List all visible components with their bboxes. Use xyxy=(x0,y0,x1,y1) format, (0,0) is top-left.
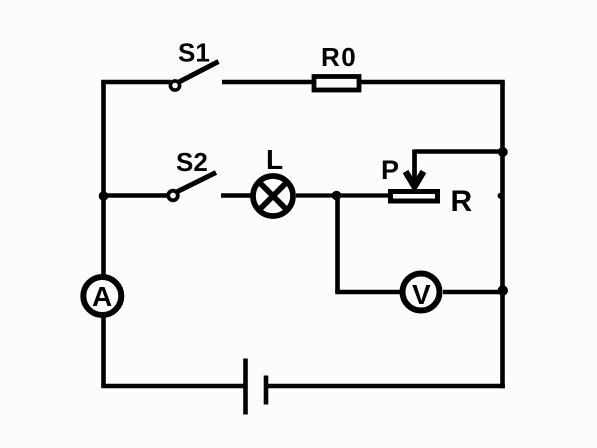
wire lamp to R xyxy=(296,193,390,197)
svg-text:R0: R0 xyxy=(321,42,357,72)
wire bottom left segment to battery xyxy=(101,384,245,389)
wire R0 to top right corner xyxy=(360,80,505,85)
wire left vertical (top corner to ammeter) xyxy=(101,82,106,277)
junction dot left wire / S2 branch xyxy=(99,191,109,201)
potentiometer wiper arrowhead xyxy=(406,172,424,187)
wire wiper to right wire xyxy=(415,149,503,154)
wire battery to bottom right corner xyxy=(266,384,505,389)
wire left vertical (ammeter to bottom corner) xyxy=(101,315,106,386)
svg-text:S1: S1 xyxy=(178,38,210,68)
stray dot on right wire xyxy=(498,193,504,199)
potentiometer R body xyxy=(391,192,438,202)
potentiometer wiper stem xyxy=(412,150,417,181)
wire left to S2 xyxy=(104,193,169,198)
wire junction down to voltmeter level xyxy=(335,196,340,293)
resistor R0 body xyxy=(314,77,359,91)
junction dot wiper to right wire xyxy=(498,147,508,157)
switch S2 lever xyxy=(176,173,217,193)
svg-text:A: A xyxy=(92,281,112,312)
lamp L circle xyxy=(253,176,293,216)
svg-text:R: R xyxy=(451,185,473,218)
lamp L cross line 2 xyxy=(259,182,287,210)
voltmeter V circle xyxy=(403,274,440,311)
switch S1 contact circle xyxy=(170,81,179,90)
battery short plate xyxy=(264,376,269,405)
ammeter A circle xyxy=(83,277,121,315)
wire S1 to R0 xyxy=(222,80,314,85)
lamp L cross line 1 xyxy=(259,182,287,210)
wire top left segment to S1 xyxy=(101,80,171,85)
svg-text:S2: S2 xyxy=(176,147,208,177)
junction dot voltmeter tap xyxy=(332,191,342,201)
svg-text:L: L xyxy=(266,144,283,175)
wire to voltmeter xyxy=(335,290,402,295)
svg-text:P: P xyxy=(381,155,399,185)
wire S2 to lamp xyxy=(221,193,252,198)
wire voltmeter to right wire xyxy=(443,290,503,295)
wire right vertical xyxy=(500,82,505,388)
switch S2 contact circle xyxy=(168,191,178,201)
svg-text:V: V xyxy=(412,279,431,310)
switch S1 lever xyxy=(177,62,219,84)
junction dot voltmeter to right wire xyxy=(498,285,508,295)
battery long plate xyxy=(243,359,248,415)
